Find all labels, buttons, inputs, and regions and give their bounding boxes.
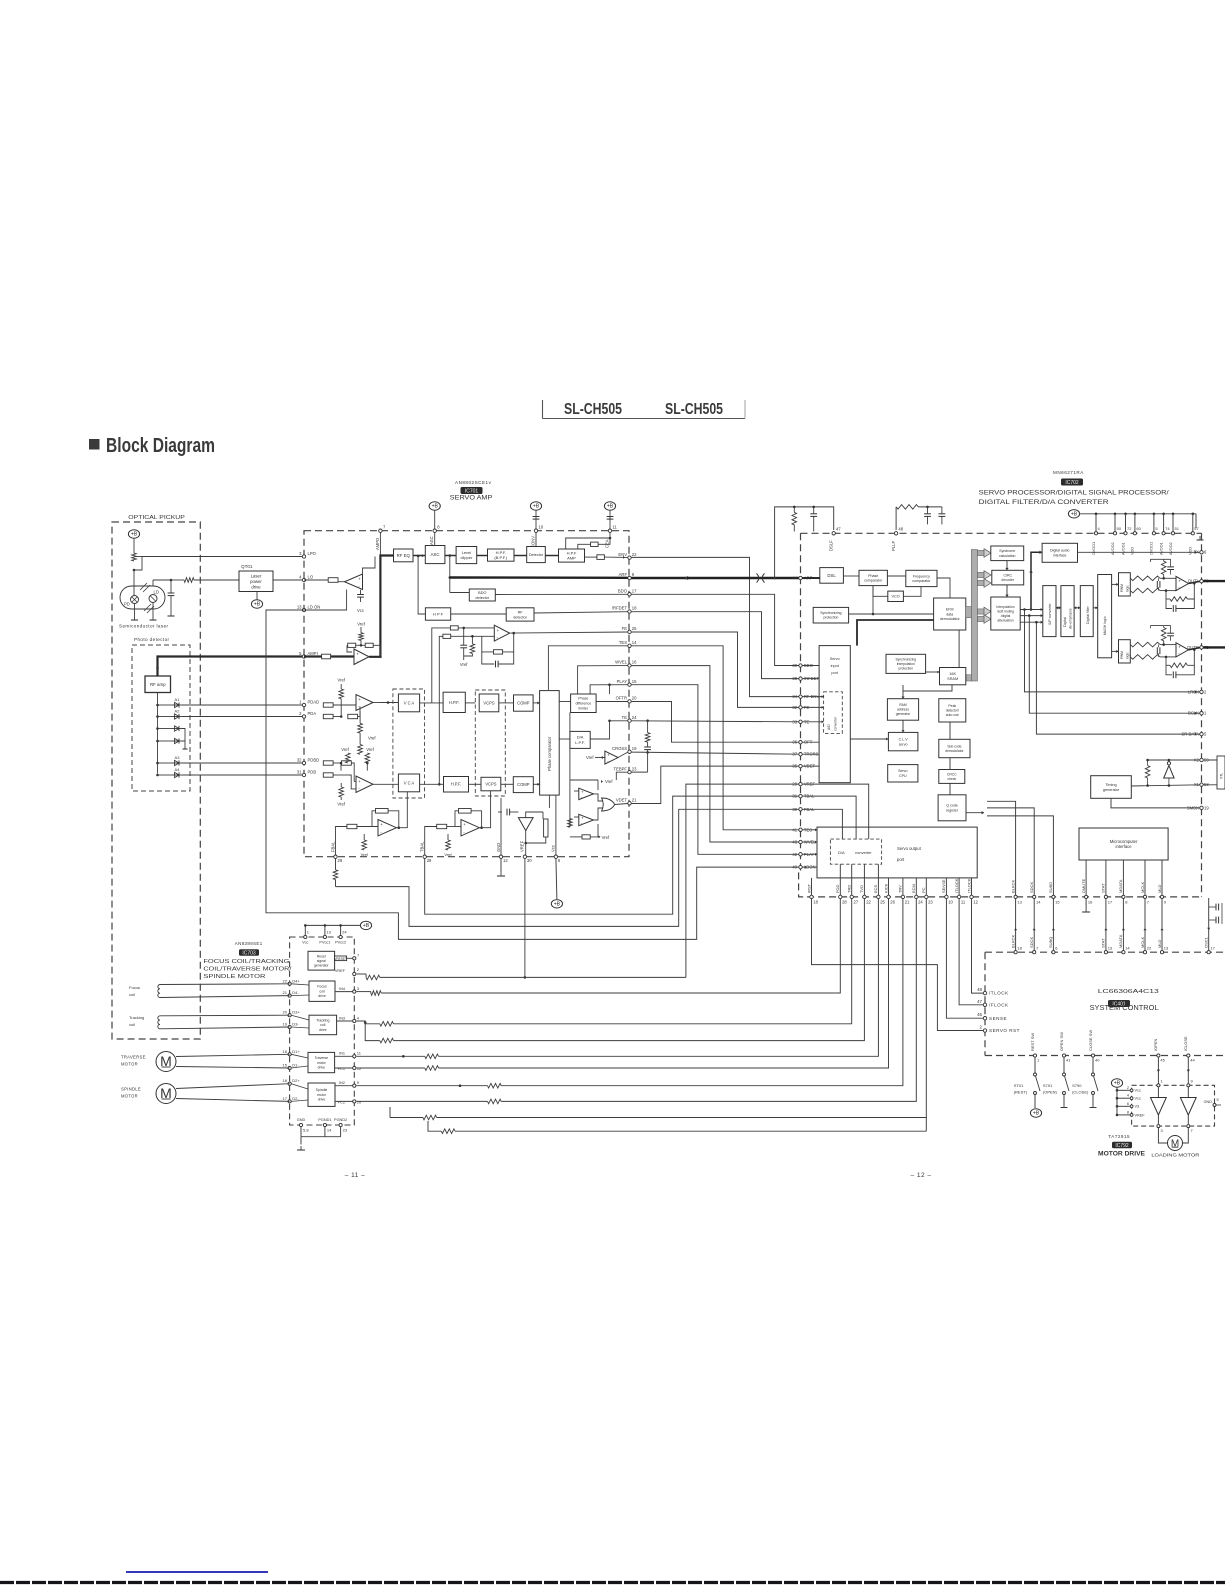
IC702 pin 38 /RFDET xyxy=(799,677,802,680)
wire supply pin 4 xyxy=(1095,514,1097,532)
wire MDATA xyxy=(1122,899,1124,951)
svg-text:15: 15 xyxy=(632,679,637,684)
resistor VRESET box xyxy=(335,956,347,961)
svg-text:generator: generator xyxy=(314,964,329,968)
buffer (VREF) xyxy=(518,818,533,831)
svg-text:ECS: ECS xyxy=(873,884,878,893)
wire TX to pin 6 xyxy=(1078,551,1200,553)
wire to OPEN switch xyxy=(1063,1057,1065,1073)
svg-text:47: 47 xyxy=(977,999,982,1004)
svg-text:21: 21 xyxy=(283,990,288,995)
svg-text:interface: interface xyxy=(1116,844,1133,849)
HPF block row2 xyxy=(444,777,469,793)
wire VREF pin to resistor xyxy=(357,973,367,975)
VCA block row2 xyxy=(398,774,419,792)
PWM logic block (L) xyxy=(1119,573,1131,596)
photodiode PD xyxy=(131,596,139,604)
wire sync interp to SRAM xyxy=(926,671,940,673)
IC702 pin 60 VDD xyxy=(1133,532,1136,535)
svg-text:+: + xyxy=(1178,578,1181,583)
svg-text:L.P.F.: L.P.F. xyxy=(575,740,585,745)
wire CEA loop a xyxy=(566,532,610,549)
svg-text:8: 8 xyxy=(1127,1110,1129,1114)
IC702 pin 15 SUBQ xyxy=(1052,895,1055,898)
svg-text:interface: interface xyxy=(1053,553,1066,557)
svg-text:protection: protection xyxy=(899,667,914,671)
comparator (CROSS) xyxy=(605,751,618,764)
wire SRAM to RAM addr xyxy=(902,685,904,699)
wire VDET to pin 21 xyxy=(615,804,628,805)
driver amp B xyxy=(1180,1098,1196,1116)
wire phase to freq comparator xyxy=(887,575,905,577)
svg-text:STAT: STAT xyxy=(1101,938,1106,948)
svg-text:SDCK: SDCK xyxy=(1029,937,1034,948)
phase comparator bottom stub xyxy=(548,795,550,808)
wire ECS to IN1 xyxy=(439,899,879,1057)
wire +B to pin xyxy=(609,510,611,531)
CLV servo block xyxy=(888,732,918,750)
IC703 pin 12 PC1 xyxy=(353,1066,356,1069)
resistor (Vref row2 b) xyxy=(365,753,370,763)
Servo output port block xyxy=(817,827,977,878)
wire DSL to phase comparator xyxy=(843,575,859,577)
wire TBAL up xyxy=(425,827,437,856)
svg-text:TEBPF: TEBPF xyxy=(614,766,628,771)
ground (DMUTE) xyxy=(1082,908,1090,912)
svg-text:/TLOCK: /TLOCK xyxy=(989,991,1009,996)
IC703 pin 13 PVcc1 xyxy=(323,935,326,938)
svg-text:/soft muting: /soft muting xyxy=(997,609,1014,613)
wire supply pin 60 xyxy=(1134,514,1136,532)
+B supply (IC701 top) xyxy=(530,502,541,510)
crystal component at page edge xyxy=(1217,756,1225,789)
svg-text:auto cue: auto cue xyxy=(946,713,959,717)
svg-text:SERVO AMP: SERVO AMP xyxy=(450,495,493,502)
IC702 pin 31 TBAL xyxy=(799,794,802,797)
resistor (IN1 line) xyxy=(425,1054,439,1059)
svg-text:IN3: IN3 xyxy=(339,1017,345,1021)
svg-text:CRCC: CRCC xyxy=(947,772,957,776)
laser drive op-amp input wire from Level clipper tap xyxy=(363,557,376,575)
ground (IC701 GND pin) xyxy=(497,872,505,876)
svg-text:30: 30 xyxy=(527,858,532,863)
wire port to pin xyxy=(863,878,865,895)
svg-text:OPEN SW: OPEN SW xyxy=(1059,1032,1064,1051)
wires laser package down to ground xyxy=(134,604,136,617)
diode A4 xyxy=(158,774,173,776)
svg-text:+: + xyxy=(497,628,500,633)
resistor (VDET vert) xyxy=(568,819,573,828)
svg-text:A/D: A/D xyxy=(827,724,831,730)
svg-text:25: 25 xyxy=(880,900,885,905)
capacitor (FE) xyxy=(460,645,467,648)
op-amp (laser drive) xyxy=(345,574,363,590)
wire to loading motor - xyxy=(1183,1128,1189,1143)
IC701 pin 28 TBAL xyxy=(423,855,426,858)
svg-text:TRV: TRV xyxy=(898,885,903,893)
Phase comparator block (PLL) xyxy=(859,570,887,585)
photodiode A1 xyxy=(172,702,182,707)
HPF block xyxy=(425,608,450,620)
svg-text:– 12 –: – 12 – xyxy=(910,1172,931,1179)
RF amp xyxy=(145,676,171,693)
wire supply pin 57 xyxy=(1192,514,1194,532)
svg-text:PDB: PDB xyxy=(308,770,317,775)
svg-text:Synchronizing: Synchronizing xyxy=(895,658,916,662)
svg-text:protection: protection xyxy=(823,616,838,620)
wire KICK to PC1 xyxy=(439,899,889,1068)
IC701 dashed outline xyxy=(304,531,629,857)
wire VCO to freq comp xyxy=(903,587,921,597)
resistor (PC line) xyxy=(423,1115,437,1120)
capacitor (OUTL bias) xyxy=(1167,567,1174,570)
IC701 pin 25 FE xyxy=(628,630,631,633)
svg-text:Focus: Focus xyxy=(129,985,140,990)
capacitor (PLLF a) xyxy=(924,514,931,517)
IC701 pin 4 LO xyxy=(302,578,305,581)
svg-text:Microcomputer: Microcomputer xyxy=(1110,839,1138,844)
loading motor xyxy=(1168,1136,1183,1151)
bus branch trunk to SRAM xyxy=(966,675,971,681)
svg-text:+: + xyxy=(1178,645,1181,650)
IC702 pin 50 AVDD2 xyxy=(1113,532,1116,535)
feedback network above RF summing op-amp xyxy=(348,644,352,646)
op-amp (FE) xyxy=(494,625,509,641)
RAM address generator block xyxy=(887,699,918,721)
svg-text:18: 18 xyxy=(1017,946,1022,951)
wire IN1 pin xyxy=(357,1055,425,1057)
RC from TE to CROSS line xyxy=(647,721,649,733)
+B supply (IC702) xyxy=(1068,510,1079,518)
wire LPO tap xyxy=(134,556,142,558)
wire syndrome to CIRC xyxy=(1006,561,1008,571)
IC701 pin 3 LPO xyxy=(302,555,305,558)
svg-text:S791: S791 xyxy=(1043,1083,1053,1088)
IC702 pin 23 PC xyxy=(925,895,928,898)
svg-text:drive: drive xyxy=(251,584,261,589)
D/A converter dashed box xyxy=(830,839,881,864)
wire IN3 pin xyxy=(357,1021,380,1024)
wire traverse motor - xyxy=(176,1067,290,1069)
resistor (CEA loop) xyxy=(591,542,599,546)
Synchronizing interpolation protection block xyxy=(886,654,926,673)
op-amp (OUTL) xyxy=(1176,576,1189,590)
Microcomputer interface block xyxy=(1079,828,1168,860)
wire OUTL to pin 73 xyxy=(1189,581,1200,583)
wire SENSE to IC401 xyxy=(946,899,983,1019)
wire tracking coil - xyxy=(160,1027,290,1029)
wire microcomputer interface pin xyxy=(1161,860,1163,895)
svg-text:GND: GND xyxy=(297,1118,306,1122)
resistor on LO line xyxy=(171,579,184,581)
wire MCLK xyxy=(1144,899,1146,951)
svg-text:AVDD1: AVDD1 xyxy=(1158,542,1163,555)
svg-text:Vref: Vref xyxy=(357,622,365,627)
wire SR DATA to pin 5 xyxy=(1036,622,1199,734)
resistor (OUTR fb) xyxy=(1170,663,1187,668)
svg-text:FBAL: FBAL xyxy=(330,841,335,852)
svg-text:OPTICAL PICKUP: OPTICAL PICKUP xyxy=(128,515,185,521)
svg-text:MLD: MLD xyxy=(1157,939,1162,948)
bus branch arrow xyxy=(978,580,985,585)
driver triangle A xyxy=(1157,1087,1159,1098)
svg-text:difference: difference xyxy=(575,702,591,706)
wire PLLF filter xyxy=(895,507,897,530)
svg-text:Vcc: Vcc xyxy=(302,941,308,945)
IC792 pin 8 VREF xyxy=(1130,1114,1133,1117)
resistor (aux line) xyxy=(441,1129,455,1134)
capacitor (OUTR bias) xyxy=(1167,633,1174,636)
bus branch arrow xyxy=(978,572,985,577)
resistor (TBAL fb) xyxy=(459,809,472,814)
svg-text:CIRC: CIRC xyxy=(1003,574,1012,578)
IC702 pin 24 ECM xyxy=(915,895,918,898)
wire Q code out xyxy=(966,812,984,814)
op-amp (row1) xyxy=(356,695,373,711)
wire /TLOCK 12 to /TLOCK 48 xyxy=(972,899,984,994)
svg-text:OSC1: OSC1 xyxy=(1204,936,1209,948)
svg-text:MASH logic: MASH logic xyxy=(1103,616,1107,635)
svg-text:Vcc: Vcc xyxy=(1135,1097,1141,1101)
wire /OPEN xyxy=(1157,1057,1159,1085)
svg-text:ASC: ASC xyxy=(431,552,440,557)
IC703 pin 1 Vcc xyxy=(304,935,307,938)
svg-text:IN2: IN2 xyxy=(339,1081,345,1085)
IC702 pin 48 PLLF xyxy=(894,532,897,535)
svg-text:11: 11 xyxy=(961,900,966,905)
svg-text:clipper: clipper xyxy=(461,555,473,560)
IC401 pin 45 /OPEN xyxy=(1157,1054,1160,1057)
svg-text:48: 48 xyxy=(977,987,982,992)
svg-text:CEA: CEA xyxy=(605,539,610,548)
resistor (OUTR in+) xyxy=(1130,642,1160,647)
svg-text:EFM: EFM xyxy=(946,608,954,612)
svg-text:Vref: Vref xyxy=(444,852,452,857)
svg-text:IC701: IC701 xyxy=(465,488,479,494)
svg-text:37: 37 xyxy=(792,752,797,757)
svg-text:20: 20 xyxy=(283,1010,288,1015)
svg-text:21: 21 xyxy=(632,798,637,803)
wire TBAL to D/A converter xyxy=(802,796,856,839)
resistor (IN4 line) xyxy=(371,991,381,996)
focus coil xyxy=(158,985,160,998)
svg-text:FOD: FOD xyxy=(835,884,840,893)
svg-text:15: 15 xyxy=(1055,900,1060,905)
+B supply (IC703) xyxy=(360,921,371,929)
svg-text:Q code: Q code xyxy=(946,804,958,808)
capacitor on LO xyxy=(170,580,172,593)
svg-text:Vref: Vref xyxy=(368,736,376,741)
svg-text:AVDD2: AVDD2 xyxy=(1168,542,1173,555)
svg-text:10: 10 xyxy=(357,1100,362,1105)
wire D/A to port bottom xyxy=(839,864,841,878)
wire EFM to SRAM xyxy=(958,630,960,668)
wire VRESET xyxy=(335,957,353,959)
capacitor (DSLF) xyxy=(810,514,817,517)
wire focus coil + xyxy=(160,983,290,986)
svg-text:– 11 –: – 11 – xyxy=(345,1172,366,1179)
svg-text:KICK: KICK xyxy=(883,883,888,893)
switch blade S790 xyxy=(1094,1076,1099,1091)
IC702 pin 17 STAT xyxy=(1104,895,1107,898)
ground (photodiode pair) xyxy=(183,745,188,749)
svg-text:comparator: comparator xyxy=(912,579,931,583)
bottom page edge scan artifact xyxy=(0,1581,1225,1584)
IC702 pin 72 AVDD1 xyxy=(1124,532,1127,535)
A/D converter dashed xyxy=(824,692,843,734)
IC702 pin 21 TRV xyxy=(901,895,904,898)
wire port to bottom pin xyxy=(958,878,960,895)
op-amp (row2) xyxy=(356,776,373,793)
svg-text:generator: generator xyxy=(896,712,911,716)
Servo input port block xyxy=(819,646,850,783)
svg-text:AVDD1: AVDD1 xyxy=(1120,542,1125,555)
Vcc cell symbol xyxy=(357,595,364,598)
svg-text:TE: TE xyxy=(622,715,628,720)
IC702 pin 40 LDON xyxy=(799,865,802,868)
wire WVEL to pin 43 xyxy=(631,666,799,842)
svg-text:5: 5 xyxy=(1217,1098,1219,1102)
IC702 left/bottom edge xyxy=(799,533,1202,897)
svg-text:ENV: ENV xyxy=(618,552,627,557)
svg-text:46: 46 xyxy=(977,1012,982,1017)
IC703 pin 11 IN1 xyxy=(353,1055,356,1058)
svg-text:VREF: VREF xyxy=(520,840,525,852)
wire chain tap to HPF xyxy=(418,556,425,614)
svg-text:COMP: COMP xyxy=(517,701,530,706)
svg-text:register: register xyxy=(946,809,959,813)
laser diode LD xyxy=(149,595,157,603)
svg-text:+: + xyxy=(358,779,361,784)
svg-text:signal: signal xyxy=(317,959,326,963)
IC702 pin 32 FE xyxy=(799,706,802,709)
resistor (Vref TBAL) xyxy=(446,840,451,850)
svg-text:DMUTE: DMUTE xyxy=(1081,878,1086,893)
IC703 pin 9 IN2 xyxy=(353,1084,356,1087)
Spindle motor drive block xyxy=(308,1083,335,1106)
svg-text:decoder: decoder xyxy=(1001,578,1014,582)
RF detector block xyxy=(506,608,534,621)
op-amp (RF summing) xyxy=(354,649,369,665)
svg-text:SUBD: SUBD xyxy=(1048,882,1053,893)
16K SRAM block xyxy=(940,668,966,685)
IC702 pin 47 DSLF xyxy=(832,532,835,535)
svg-text:REST SW: REST SW xyxy=(1030,1033,1035,1051)
wire ENV to pin34 RF ENV xyxy=(631,557,799,696)
Interpolation/soft muting block xyxy=(991,597,1020,630)
wire IN4 pin xyxy=(357,991,371,993)
svg-text:14: 14 xyxy=(1036,900,1041,905)
svg-text:/CLOSE: /CLOSE xyxy=(1183,1036,1188,1051)
svg-text:DSLF: DSLF xyxy=(829,540,834,551)
wire CROSS to pin 19 xyxy=(618,752,628,757)
IC702 pin 34 RF ENV xyxy=(799,695,802,698)
wire to CLOSE switch xyxy=(1092,1057,1094,1073)
svg-text:AN8802SCE1v: AN8802SCE1v xyxy=(455,480,492,485)
svg-text:14: 14 xyxy=(1125,946,1130,951)
wire TEBPF xyxy=(631,771,647,773)
diode A2 xyxy=(158,716,173,718)
svg-text:+: + xyxy=(358,576,361,581)
wire VREF buffer to pin 30 xyxy=(525,831,527,855)
capacitor (OUTR in) xyxy=(1157,647,1160,654)
svg-text:SENSE: SENSE xyxy=(941,879,946,893)
wire to crystal xyxy=(1203,756,1221,760)
svg-text:28: 28 xyxy=(842,900,847,905)
resistor (LO line) xyxy=(184,578,194,583)
svg-text:39: 39 xyxy=(792,663,797,668)
svg-text:LOADING MOTOR: LOADING MOTOR xyxy=(1151,1153,1200,1159)
resistor (PDA in) xyxy=(323,714,333,718)
wire interpolation to S/P xyxy=(1020,621,1043,623)
svg-text:+B: +B xyxy=(432,504,439,510)
svg-text:16: 16 xyxy=(1088,900,1093,905)
wire STAT xyxy=(1105,899,1107,951)
svg-text:PC: PC xyxy=(921,887,926,893)
svg-text:Semiconductor laser: Semiconductor laser xyxy=(119,624,169,629)
svg-text:Servo: Servo xyxy=(830,657,840,661)
IC401 pin 17 OSC1 xyxy=(1207,951,1210,954)
wire microcomputer interface pin xyxy=(1122,860,1124,895)
svg-text:PLLF: PLLF xyxy=(891,541,896,551)
IC401 pin 7 SDCK xyxy=(1033,951,1036,954)
traverse motor xyxy=(156,1052,176,1072)
svg-text:address: address xyxy=(897,708,909,712)
svg-text:40: 40 xyxy=(1095,1058,1100,1063)
wire FBAL 30 route xyxy=(336,809,799,926)
wire CIRC to interpolation xyxy=(1006,585,1008,597)
svg-text:PWM: PWM xyxy=(1120,651,1124,659)
IC401 pin 48 /TLOCK xyxy=(983,991,986,994)
wire /TLOCK 11 to /FLOCK 47 xyxy=(959,899,983,1005)
IC702 pin 28 FOD xyxy=(839,895,842,898)
photo detector common bus xyxy=(157,693,159,774)
IC401 pin 47 /FLOCK xyxy=(983,1003,986,1006)
wire PLAY to pin 42 xyxy=(631,685,799,855)
IC702 pin 5 DVDD1 xyxy=(1152,532,1155,535)
IC702 pin 10 SENSE xyxy=(945,895,948,898)
resistor (PDAD in) xyxy=(323,703,333,707)
Q code register block xyxy=(938,795,966,821)
resistor (VDET) xyxy=(582,835,590,839)
resistor (to Vref) xyxy=(359,633,364,641)
svg-text:VCPS: VCPS xyxy=(485,782,496,787)
switch blade ST01 xyxy=(1036,1076,1041,1091)
bus branch EFM demod to trunk xyxy=(966,607,972,618)
resistor (OUTL in+) xyxy=(1130,576,1160,581)
wire BDO to pin 39 xyxy=(631,594,799,665)
svg-text:detector/: detector/ xyxy=(946,709,959,713)
ground (LD) xyxy=(150,616,157,620)
IC703 pin 3 IN4 xyxy=(353,990,356,993)
wire to osc caps xyxy=(1209,906,1216,908)
svg-text:6: 6 xyxy=(1127,1102,1129,1106)
svg-text:IC702: IC702 xyxy=(1065,480,1079,486)
wire TRV to IN2 xyxy=(501,899,903,1086)
Digital filter block xyxy=(1080,586,1093,637)
svg-text:Interpolation: Interpolation xyxy=(996,605,1014,609)
IC702 top edge xyxy=(801,532,1202,534)
svg-text:DVDD1: DVDD1 xyxy=(1149,542,1154,555)
svg-text:S/P converter: S/P converter xyxy=(1048,602,1052,625)
svg-text:Phase comparator: Phase comparator xyxy=(547,736,552,771)
svg-text:SYSTEM CONTROL: SYSTEM CONTROL xyxy=(1090,1003,1159,1012)
svg-text:RF EQ: RF EQ xyxy=(397,553,411,558)
ground (IC703) xyxy=(297,1146,305,1150)
wire BDO to pin 17 xyxy=(495,593,628,595)
resistor (VREF line) xyxy=(366,975,380,980)
svg-text:+B: +B xyxy=(533,504,540,510)
